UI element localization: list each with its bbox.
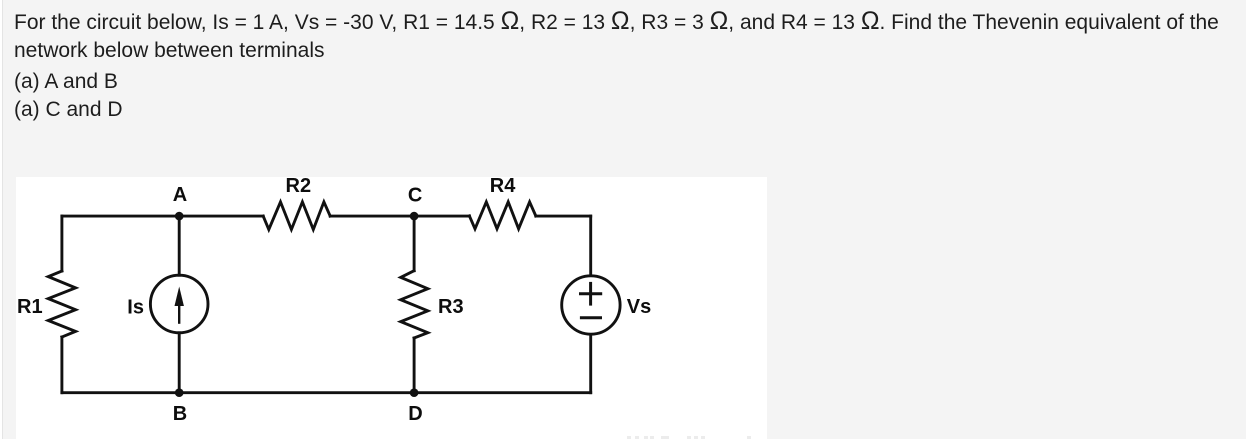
wire right vertical bottom (Vs to bottom-right corner) — [589, 335, 592, 393]
node B — [175, 388, 184, 397]
wire Is branch top (node A down to Is) — [178, 216, 181, 275]
wire R3 branch top (node C down to R3) — [413, 216, 416, 271]
wire bottom rail (B to D to corners) — [62, 391, 591, 394]
svg-text:A: A — [173, 184, 187, 206]
wire left vertical top (top-left corner down to R1) — [60, 216, 63, 271]
wire left vertical bottom (R1 to bottom-left corner) — [60, 337, 63, 393]
wire top middle segment (R2 to node C to R4) — [330, 215, 469, 218]
svg-text:Vs: Vs — [627, 296, 651, 318]
svg-text:R2: R2 — [286, 175, 312, 197]
svg-text:B: B — [173, 403, 187, 425]
resistor R4 — [469, 202, 535, 229]
wire top right segment (R4 to top-right corner) — [536, 215, 591, 218]
svg-text:Is: Is — [127, 297, 144, 319]
resistor R2 — [263, 202, 330, 230]
voltage source Vs plus sign — [581, 283, 601, 304]
svg-text:R1: R1 — [17, 296, 43, 318]
current source Is arrow — [175, 287, 184, 323]
resistor R1 — [48, 271, 75, 337]
current source Is — [150, 275, 208, 333]
svg-text:R3: R3 — [438, 296, 464, 318]
svg-text:D: D — [408, 403, 422, 425]
wire Is branch bottom (Is to node B) — [178, 333, 181, 393]
wire top left segment (corner to node A to R2) — [62, 215, 263, 218]
svg-text:R4: R4 — [490, 175, 516, 197]
part (a) lines — [14, 68, 123, 124]
resistor R3 — [401, 271, 428, 338]
svg-text:C: C — [408, 184, 422, 206]
node C — [410, 212, 419, 221]
node D — [410, 388, 419, 397]
faint watermark remnant at bottom — [626, 436, 761, 439]
left border line — [2, 0, 3, 439]
node A — [175, 212, 184, 221]
wire R3 branch bottom (R3 to node D) — [413, 338, 416, 393]
left white gutter — [0, 0, 2, 439]
voltage source Vs minus sign — [581, 316, 600, 319]
question paragraph — [14, 7, 1219, 65]
wire right vertical top (corner to Vs) — [589, 216, 592, 275]
white circuit panel — [16, 177, 767, 439]
voltage source Vs — [562, 276, 620, 334]
